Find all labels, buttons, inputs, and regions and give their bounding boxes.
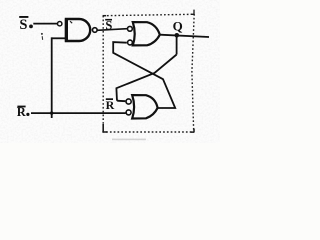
node bullet on R-bar input: [26, 113, 29, 116]
wire Q node down to crossover: [176, 36, 178, 55]
output bubble NAND: [93, 28, 98, 33]
wire S-bar input to NAND top input: [33, 23, 57, 25]
dashed box corner tick bottom-left: [103, 124, 107, 132]
scan smudge below box: [112, 139, 146, 141]
node bullet on S-bar input: [29, 25, 33, 29]
label R-bar (inner): [106, 98, 115, 112]
wire crossover Q to bottom gate upper input: [116, 55, 176, 102]
junction R-bar and feedback: [50, 111, 53, 114]
stray mark figure "1": [41, 33, 43, 40]
dashed box corner tick bottom-right: [191, 129, 195, 133]
junction Q node: [175, 33, 180, 38]
NAND gate U1 body: [66, 18, 90, 41]
svg-text:Q: Q: [173, 18, 183, 33]
dashed box right edge: [192, 14, 194, 132]
scan tick inside NAND gate: [70, 21, 72, 23]
svg-text:S: S: [19, 17, 27, 33]
label S-bar (inner): [105, 18, 112, 32]
label R-bar (outer input): [17, 105, 27, 119]
label S-bar (outer input): [19, 16, 28, 33]
dashed box top edge: [103, 14, 194, 15]
input bubble top gate, upper: [127, 26, 132, 31]
wire NAND bottom input: [52, 37, 65, 39]
OR gate U3 (bottom) body: [132, 95, 157, 118]
svg-text:R: R: [106, 98, 115, 112]
dashed box corner tick top-left: [103, 15, 107, 17]
input bubble top gate, lower: [128, 40, 133, 45]
input bubble bottom gate, upper: [126, 99, 131, 104]
wire top gate output to Q and right edge: [160, 35, 209, 37]
wire crossover bottom gate output to top gate lower input: [113, 42, 175, 108]
wire R-bar input line: [31, 112, 126, 114]
OR gate U2 (top) body: [133, 22, 160, 45]
wire NAND output to top gate input: [97, 29, 127, 31]
input bubble bottom gate, lower: [126, 110, 131, 115]
dashed box corner tick top-right: [191, 10, 194, 15]
dashed box left edge: [102, 16, 104, 132]
input bubble NAND top input: [58, 22, 62, 26]
wire vertical feedback from NAND input down to R-bar line: [51, 37, 53, 118]
dashed box bottom edge: [102, 131, 194, 133]
